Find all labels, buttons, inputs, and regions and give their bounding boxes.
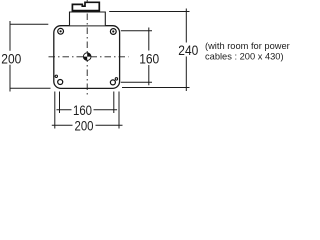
small pin hole bottom-left xyxy=(55,75,57,77)
small pin hole bottom-right xyxy=(115,78,117,80)
svg-text:200: 200 xyxy=(1,51,21,67)
svg-text:160: 160 xyxy=(73,102,92,118)
right dim 240: extension lines xyxy=(109,12,189,88)
screw hole bottom-right xyxy=(110,80,115,85)
right dim 160: extension lines xyxy=(121,31,152,82)
svg-text:160: 160 xyxy=(139,50,159,66)
screw hole bottom-left xyxy=(58,80,63,85)
screw hole top-left xyxy=(58,28,64,34)
vertical center line top dash xyxy=(86,0,88,1)
bottom dim 160: dimension line xyxy=(57,109,118,111)
stepped terminal on connector (thick) xyxy=(72,2,99,10)
svg-text:240: 240 xyxy=(178,42,198,58)
horizontal center line xyxy=(49,56,129,58)
left dim 200: dimension line xyxy=(9,21,11,92)
right dim 160: dimension line xyxy=(148,28,150,86)
right dim 240: dimension line xyxy=(185,9,187,92)
bottom dim 160: extension lines xyxy=(60,92,114,114)
screw hole top-right xyxy=(110,29,116,35)
bottom dim 200: extension lines xyxy=(55,92,119,129)
left dim 200: extension lines xyxy=(10,24,51,88)
svg-text:(with room for power: (with room for power xyxy=(205,41,290,51)
bottom dim 200: dimension line xyxy=(52,124,123,126)
connector base block on top xyxy=(70,12,106,25)
vertical center line xyxy=(86,14,88,97)
center target marker xyxy=(83,53,91,61)
svg-text:cables : 200 x 430): cables : 200 x 430) xyxy=(205,51,284,61)
main body rounded square xyxy=(54,26,120,89)
svg-text:200: 200 xyxy=(75,118,94,134)
